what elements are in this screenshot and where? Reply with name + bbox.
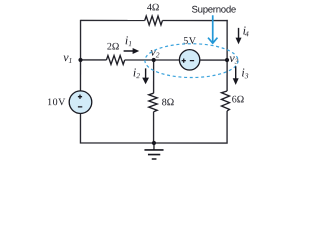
resistor 6ohm bbox=[221, 91, 229, 111]
svg-text:i4: i4 bbox=[243, 23, 249, 38]
junction at ground bbox=[152, 141, 156, 145]
wire middle rail 5V source to v3 bbox=[200, 59, 227, 61]
svg-text:i3: i3 bbox=[241, 65, 248, 80]
voltage source 5V bbox=[179, 50, 199, 70]
wire top rail left of 4ohm bbox=[81, 19, 145, 21]
wire v2 branch lower bbox=[153, 112, 155, 143]
node v3 bbox=[225, 58, 229, 62]
svg-text:6Ω: 6Ω bbox=[232, 94, 244, 105]
wire v2 branch upper bbox=[153, 60, 155, 93]
label 2ohm bbox=[107, 41, 119, 52]
svg-text:4Ω: 4Ω bbox=[147, 2, 159, 13]
wire middle rail 2ohm to 5V source bbox=[125, 59, 180, 61]
current arrow i2 bbox=[142, 68, 149, 84]
supernode pointer arrow bbox=[208, 15, 217, 43]
ground bbox=[144, 143, 163, 159]
resistor 2ohm bbox=[106, 56, 124, 65]
resistor 8ohm bbox=[149, 93, 157, 112]
label i4 bbox=[243, 23, 249, 38]
label 6ohm bbox=[232, 94, 244, 105]
label 10V bbox=[47, 97, 66, 108]
label v2 bbox=[150, 45, 159, 60]
label 5V bbox=[183, 36, 196, 47]
svg-text:10V: 10V bbox=[47, 97, 66, 108]
label v3 bbox=[229, 51, 238, 66]
label i1 bbox=[125, 33, 132, 48]
label 8ohm bbox=[162, 97, 174, 108]
wire middle rail v1 to 2ohm bbox=[81, 59, 107, 61]
svg-text:Supernode: Supernode bbox=[192, 5, 236, 16]
label i3 bbox=[241, 65, 248, 80]
svg-text:8Ω: 8Ω bbox=[162, 97, 174, 108]
wire right vertical upper bbox=[226, 20, 228, 91]
node v2 bbox=[152, 58, 156, 62]
wire top rail right of 4ohm bbox=[162, 20, 227, 22]
supernode boundary dashed ellipse bbox=[145, 44, 238, 78]
svg-text:2Ω: 2Ω bbox=[107, 41, 119, 52]
supernode label bbox=[192, 5, 236, 16]
voltage source 10V bbox=[69, 91, 92, 114]
wire right vertical lower bbox=[154, 111, 227, 143]
current arrow i1 bbox=[124, 48, 140, 54]
node v1 bbox=[78, 58, 82, 62]
label i2 bbox=[133, 65, 140, 80]
svg-text:i2: i2 bbox=[133, 65, 140, 80]
current arrow i4 bbox=[236, 28, 242, 44]
wire left vertical upper bbox=[79, 20, 81, 91]
label 4ohm bbox=[147, 2, 159, 13]
svg-text:5V: 5V bbox=[183, 36, 196, 47]
wire left vertical lower bbox=[80, 113, 154, 143]
svg-text:i1: i1 bbox=[125, 33, 132, 48]
current arrow i3 bbox=[233, 66, 239, 85]
label v1 bbox=[63, 50, 72, 65]
resistor 4ohm bbox=[145, 16, 163, 25]
svg-text:v1: v1 bbox=[63, 50, 72, 65]
